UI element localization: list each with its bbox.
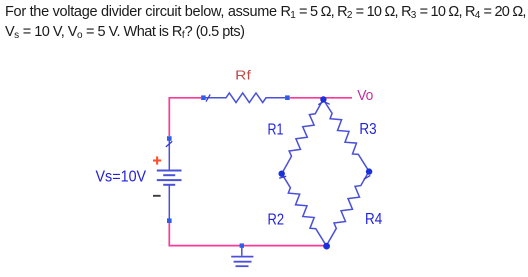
svg-text:R4: R4 (365, 211, 382, 228)
svg-text:Rf: Rf (235, 67, 251, 82)
svg-text:R3: R3 (359, 121, 376, 138)
svg-text:R2: R2 (268, 212, 285, 229)
svg-text:Vs=10V: Vs=10V (96, 169, 147, 186)
svg-text:Vo: Vo (357, 87, 373, 104)
svg-text:R1: R1 (268, 122, 284, 139)
